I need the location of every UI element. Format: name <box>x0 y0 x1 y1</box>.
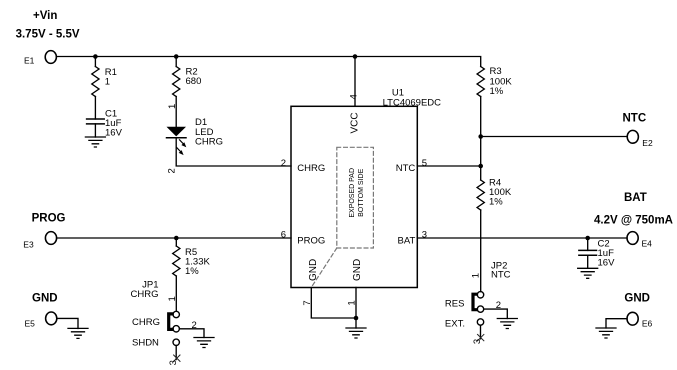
wire BAT to E4 <box>417 237 627 239</box>
svg-text:+Vin: +Vin <box>33 10 57 22</box>
jumper JP1 name <box>131 279 159 300</box>
wire C2 stub <box>587 238 589 250</box>
jumper JP2 name <box>491 260 511 280</box>
svg-text:E5: E5 <box>25 318 36 328</box>
node junction R1 tap <box>93 54 98 59</box>
wire JP1 pin3 stub <box>175 346 177 360</box>
svg-text:1: 1 <box>167 104 178 109</box>
wire JP1 pin2 to ground <box>179 329 204 338</box>
wire R1 to C1 <box>94 97 96 120</box>
svg-text:EXPOSED PAD: EXPOSED PAD <box>349 168 356 218</box>
jumper JP1 pin 1 pad <box>173 311 179 317</box>
svg-text:E4: E4 <box>642 239 653 249</box>
ground E5 <box>68 328 88 338</box>
svg-text:3.75V - 5.5V: 3.75V - 5.5V <box>16 29 80 41</box>
svg-text:1: 1 <box>167 296 178 301</box>
svg-text:2: 2 <box>281 158 286 169</box>
svg-text:EXT.: EXT. <box>445 319 465 330</box>
terminal E5 <box>25 312 57 328</box>
wire R1 stub <box>94 57 96 67</box>
svg-text:3: 3 <box>422 230 427 241</box>
ground E6 <box>596 328 616 338</box>
jumper JP1 shunt bracket <box>169 314 173 330</box>
resistor R1 <box>92 67 117 97</box>
wire E3 to PROG pin <box>57 237 291 239</box>
svg-text:GND: GND <box>308 259 319 281</box>
svg-text:1: 1 <box>105 76 110 87</box>
svg-text:4: 4 <box>348 94 359 99</box>
node +Vin label <box>16 10 80 41</box>
wire to ground U1 <box>355 318 357 328</box>
wire NTC pin to divider <box>417 165 480 167</box>
svg-text:16V: 16V <box>598 258 616 269</box>
wire E5 to ground <box>57 318 78 328</box>
wire E6 to ground <box>606 319 627 328</box>
wire GND pin 1 <box>355 288 357 319</box>
svg-text:GND: GND <box>32 292 58 304</box>
wire C2 to ground <box>587 255 589 268</box>
terminal E2 <box>627 130 653 147</box>
svg-text:CHRG: CHRG <box>132 317 160 328</box>
svg-text:E2: E2 <box>642 138 653 148</box>
svg-text:R3: R3 <box>490 66 502 77</box>
wire VCC stub pin 4 <box>354 57 356 107</box>
svg-text:CHRG: CHRG <box>297 163 325 174</box>
wire R3 to R4 <box>480 97 482 181</box>
svg-text:4.2V @ 750mA: 4.2V @ 750mA <box>594 214 673 226</box>
IC U1 box <box>291 88 441 288</box>
wire top rail <box>56 57 480 67</box>
svg-text:1%: 1% <box>489 197 503 208</box>
svg-text:BOTTOM SIDE: BOTTOM SIDE <box>358 168 365 216</box>
svg-text:6: 6 <box>281 230 286 241</box>
terminal E6 <box>627 312 653 328</box>
node BAT label <box>594 192 673 226</box>
node junction VCC tap <box>353 54 358 59</box>
resistor R4 <box>477 178 512 211</box>
wire C1 to ground <box>94 124 96 137</box>
node junction C2 tap <box>585 236 590 241</box>
ground C1 <box>85 137 105 147</box>
exposed pad dashed box <box>337 147 374 248</box>
wire GND pin 7 <box>311 288 356 319</box>
jumper JP1 pin 2 pad <box>173 326 179 332</box>
svg-text:E6: E6 <box>642 319 653 329</box>
node junction NTC-E2 <box>478 134 483 139</box>
wire R2 stub <box>175 57 177 67</box>
resistor R3 <box>477 66 512 97</box>
node junction R2 tap <box>174 54 179 59</box>
svg-text:VCC: VCC <box>349 112 360 133</box>
jumper JP2 pin 3 pad <box>477 319 483 325</box>
capacitor C1 <box>87 109 123 139</box>
svg-text:3: 3 <box>472 339 483 344</box>
terminal E1 <box>24 51 56 66</box>
svg-text:1%: 1% <box>490 86 504 97</box>
jumper JP1 pin 3 pad <box>173 339 179 345</box>
resistor R5 <box>173 246 211 277</box>
no-connect X JP1 <box>174 355 180 361</box>
jumper JP2 pin 2 pad <box>477 306 483 312</box>
ground C2 <box>578 268 598 278</box>
wire R2 to D1 <box>175 97 177 127</box>
wire D1 to CHRG pin <box>176 138 291 166</box>
jumper JP2 pin 1 pad <box>477 292 483 298</box>
wire JP2 pin3 stub <box>480 325 482 339</box>
svg-text:2: 2 <box>166 168 177 173</box>
svg-text:680: 680 <box>186 76 202 87</box>
node junction NTC pin <box>478 164 483 169</box>
svg-text:PROG: PROG <box>297 235 325 246</box>
svg-text:PROG: PROG <box>32 213 66 225</box>
no-connect X JP2 <box>478 334 484 340</box>
svg-text:3: 3 <box>168 360 179 365</box>
svg-text:NTC: NTC <box>623 113 647 125</box>
wire divider to E2 <box>481 136 628 138</box>
svg-text:CHRG: CHRG <box>195 137 223 148</box>
svg-text:5: 5 <box>422 158 427 169</box>
ground JP2 <box>497 319 517 329</box>
svg-text:CHRG: CHRG <box>131 289 159 300</box>
wire R5 stub <box>175 238 177 246</box>
LED D1 <box>167 117 223 155</box>
svg-text:E1: E1 <box>24 55 35 65</box>
node junction R5 tap <box>174 236 179 241</box>
terminal E4 <box>627 232 652 249</box>
svg-text:SHDN: SHDN <box>132 338 159 349</box>
svg-text:E3: E3 <box>23 240 34 250</box>
wire R4 to JP2 <box>480 210 482 292</box>
svg-text:BAT: BAT <box>624 192 647 204</box>
ground JP1 <box>194 338 214 348</box>
ground U1 <box>346 328 366 338</box>
node junction GND <box>354 316 359 321</box>
wire R5 to JP1 <box>175 276 177 311</box>
resistor R2 <box>173 67 202 97</box>
capacitor C2 <box>579 239 615 269</box>
svg-text:LTC4069EDC: LTC4069EDC <box>383 97 442 108</box>
terminal E3 <box>23 232 56 250</box>
svg-text:NTC: NTC <box>491 269 511 280</box>
svg-text:RES: RES <box>445 299 465 310</box>
jumper JP2 shunt bracket <box>473 294 477 310</box>
svg-text:1: 1 <box>470 273 481 278</box>
wire JP2 pin2 to ground <box>484 309 508 318</box>
svg-text:NTC: NTC <box>396 163 416 174</box>
svg-text:GND: GND <box>624 292 650 304</box>
dashed link exposed pad to GND <box>313 248 337 286</box>
svg-text:BAT: BAT <box>398 235 416 246</box>
svg-text:1%: 1% <box>185 266 199 277</box>
svg-text:GND: GND <box>352 259 363 281</box>
svg-text:16V: 16V <box>105 128 123 139</box>
